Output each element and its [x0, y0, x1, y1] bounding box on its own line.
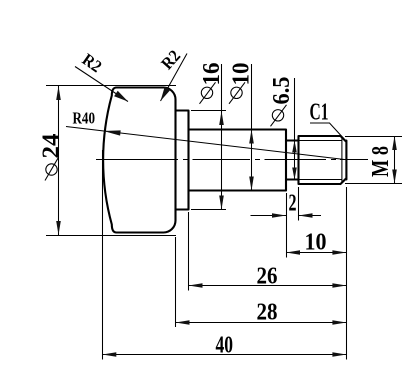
dimension D16 witness lines [191, 111, 226, 210]
leader R2 left [75, 50, 128, 102]
dimension 2 lines and arrows [251, 215, 322, 217]
svg-text:R40: R40 [73, 109, 96, 128]
svg-text:10: 10 [305, 230, 327, 256]
dimension 2 witness lines [287, 187, 299, 258]
dimension D10 witness-free line [251, 64, 253, 191]
leader R2 right [157, 46, 187, 101]
svg-text:28: 28 [257, 300, 278, 326]
svg-text:24: 24 [39, 134, 65, 159]
dimension D16 arrows [219, 111, 224, 125]
thread minor diameter lines [299, 141, 342, 180]
shaft D10 section outline [189, 130, 287, 191]
dimension 40 line and arrows [102, 354, 346, 356]
dimension 26 witness line left [188, 212, 190, 291]
leader C1 [310, 100, 344, 139]
dimension D24 label [39, 134, 65, 181]
dimension D10 arrows [249, 130, 254, 144]
dimension M8 arrows [392, 136, 397, 150]
head outline (D24 crowned head with R40 face and R2 corners) [103, 87, 175, 232]
dimension 28 witness line left [175, 237, 177, 327]
flange D16 section outline [176, 111, 189, 210]
svg-text:2: 2 [289, 191, 297, 217]
dimension D24 arrows [56, 86, 61, 100]
chamfer edge line [341, 137, 343, 183]
dimension M8 line [394, 136, 396, 184]
dimension D16 label [199, 63, 225, 104]
dimension D6.5 arrows [292, 141, 297, 153]
thread M8 section outline with C1 chamfer [299, 136, 347, 184]
svg-text:40: 40 [216, 333, 234, 359]
svg-text:16: 16 [199, 63, 225, 86]
leader R40 [66, 109, 345, 160]
dimension D6.5 label [269, 77, 295, 127]
neck D6.5 outline [286, 141, 299, 180]
dimension D24 witness lines [46, 86, 176, 236]
svg-text:C1: C1 [310, 100, 329, 126]
dimension 40 witness line left [102, 150, 104, 360]
dimension D24 line [58, 86, 60, 236]
dimension 26 line and arrows [189, 285, 347, 287]
dimension 10 witness line right [346, 187, 348, 360]
dimension D10 label [229, 63, 255, 104]
centerline [96, 159, 368, 161]
dimension 10 line and arrows [286, 252, 346, 254]
dimension D6.5 line [294, 78, 296, 180]
dimension M8 witness lines [345, 137, 402, 184]
svg-text:26: 26 [257, 264, 278, 290]
dimension M8 label [368, 146, 394, 177]
svg-text:M 8: M 8 [368, 146, 394, 177]
dimension D16 line [221, 64, 223, 210]
svg-text:6.5: 6.5 [269, 77, 295, 105]
svg-text:10: 10 [229, 63, 255, 86]
dimension 28 line and arrows [176, 322, 347, 324]
